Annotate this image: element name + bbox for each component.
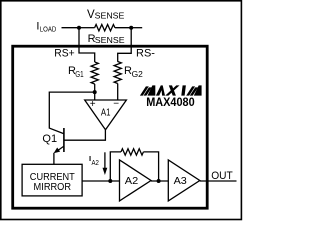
amplifier A2 — [120, 160, 152, 201]
Q1 emitter with arrow — [57, 146, 64, 151]
M2 slash1 — [186, 86, 195, 95]
svg-text:A2: A2 — [125, 176, 139, 187]
wire current mirror to A2 — [82, 180, 119, 182]
node B (A2 input junction dot) — [108, 179, 112, 183]
wire stub right of node — [131, 27, 142, 29]
amplifier A3 — [168, 160, 200, 201]
wire ILOAD to left node — [62, 27, 80, 29]
svg-text:MAX4080: MAX4080 — [146, 97, 195, 109]
wire resistor to right node — [115, 27, 131, 29]
M1 slash2 — [144, 87, 152, 95]
feedback resistor zigzag — [121, 149, 143, 155]
resistor RSENSE — [95, 25, 115, 31]
svg-text:SENSE: SENSE — [95, 36, 125, 45]
label RSENSE — [88, 33, 125, 45]
resistor RG2 — [114, 62, 121, 84]
feedback resistor right leg to output node — [143, 152, 158, 181]
label ILOAD — [36, 21, 56, 34]
label IA2 — [89, 154, 99, 167]
IC package box MAX4080 — [13, 46, 208, 208]
node C (A2 output junction dot) — [157, 179, 161, 183]
M2 slash2 — [190, 87, 198, 95]
current mirror box — [22, 164, 82, 196]
wire A2 to A3 — [151, 180, 168, 182]
A peak — [156, 85, 165, 95]
svg-text:G2: G2 — [132, 70, 144, 79]
wire left node to resistor — [79, 27, 95, 29]
label VSENSE — [87, 9, 124, 21]
transistor Q1 — [54, 128, 106, 153]
label RG2 — [124, 65, 143, 79]
svg-text:A3: A3 — [174, 176, 188, 187]
M1 slash1 — [140, 86, 149, 95]
node A (RG1 / A1+ / feedback junction dot) — [93, 90, 97, 94]
label RG1 — [68, 65, 84, 79]
Q1 base bar — [63, 128, 65, 152]
wire Q1 emitter to current mirror — [53, 153, 55, 165]
node left (junction dot) — [77, 26, 81, 30]
svg-text:−: − — [113, 99, 119, 110]
op-amp A1 — [85, 100, 127, 130]
svg-text:SENSE: SENSE — [95, 12, 125, 21]
svg-text:Q1: Q1 — [42, 133, 57, 145]
current arrow IA2 — [103, 152, 108, 175]
X — [165, 85, 179, 95]
svg-text:RS+: RS+ — [54, 47, 74, 59]
MAXIM logo — [140, 85, 202, 95]
Q1 base wire from A1 output — [64, 130, 106, 140]
svg-text:+: + — [90, 99, 96, 110]
I — [181, 85, 186, 95]
svg-text:MIRROR: MIRROR — [34, 181, 72, 193]
svg-text:A2: A2 — [92, 160, 99, 167]
svg-text:RS-: RS- — [136, 48, 155, 60]
M2 triangle — [194, 85, 202, 95]
svg-text:G1: G1 — [75, 70, 84, 79]
M1 triangle — [148, 85, 156, 95]
outer figure border — [1, 1, 242, 220]
wire RS+ vertical from left node — [79, 28, 95, 62]
wire RG2 to A1 minus input — [117, 84, 119, 101]
svg-text:LOAD: LOAD — [40, 24, 57, 33]
node right (junction dot) — [129, 26, 133, 30]
resistor RG1 — [91, 62, 98, 84]
svg-text:OUT: OUT — [211, 170, 233, 182]
wire A3 to OUT — [200, 180, 237, 182]
feedback resistor around A2 : left leg — [110, 152, 121, 181]
wire RS- vertical from right node — [118, 28, 132, 62]
wire feedback from node A to Q1 collector — [49, 92, 94, 134]
svg-text:A1: A1 — [101, 107, 111, 118]
wire RG1 to node A — [94, 84, 96, 100]
